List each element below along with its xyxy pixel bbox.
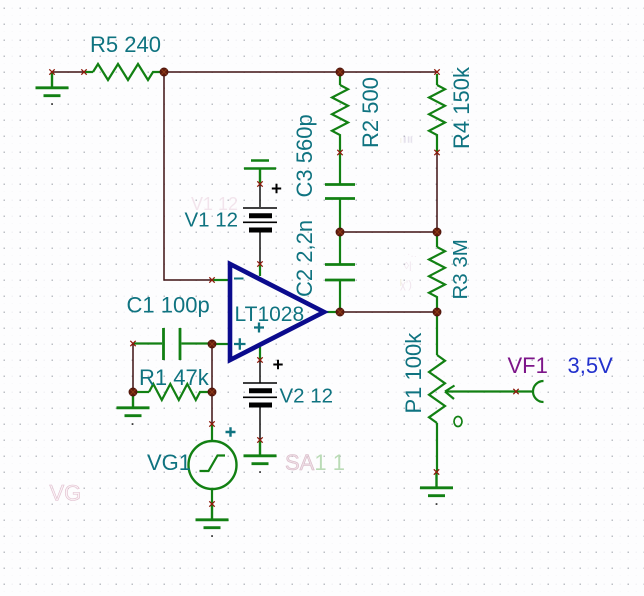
- svg-text:·‥: ·‥: [407, 249, 417, 260]
- svg-text:R1 47k: R1 47k: [139, 365, 210, 390]
- svg-text:R5 240: R5 240: [90, 32, 161, 57]
- svg-text:P1 100k: P1 100k: [401, 332, 426, 414]
- svg-text:C3 560p: C3 560p: [292, 114, 317, 197]
- svg-text:LT1028: LT1028: [235, 303, 305, 326]
- svg-text:R3 3M: R3 3M: [449, 239, 472, 299]
- svg-text:3,5V: 3,5V: [568, 353, 614, 378]
- svg-text:V2 12: V2 12: [280, 385, 334, 408]
- svg-text:C2 2,2n: C2 2,2n: [292, 220, 317, 297]
- svg-text:V1 12: V1 12: [185, 209, 239, 232]
- svg-text:R2 500: R2 500: [358, 77, 383, 148]
- svg-text:VG1: VG1: [147, 450, 191, 475]
- svg-text:χ’): χ’): [400, 279, 412, 291]
- svg-text:VF1: VF1: [508, 353, 548, 378]
- svg-text:◊|: ◊|: [404, 261, 412, 272]
- svg-text:R4 150k: R4 150k: [449, 66, 474, 149]
- svg-text:VG: VG: [50, 481, 82, 506]
- svg-text:SA1 1: SA1 1: [285, 450, 345, 475]
- svg-text:C1 100p: C1 100p: [127, 293, 210, 318]
